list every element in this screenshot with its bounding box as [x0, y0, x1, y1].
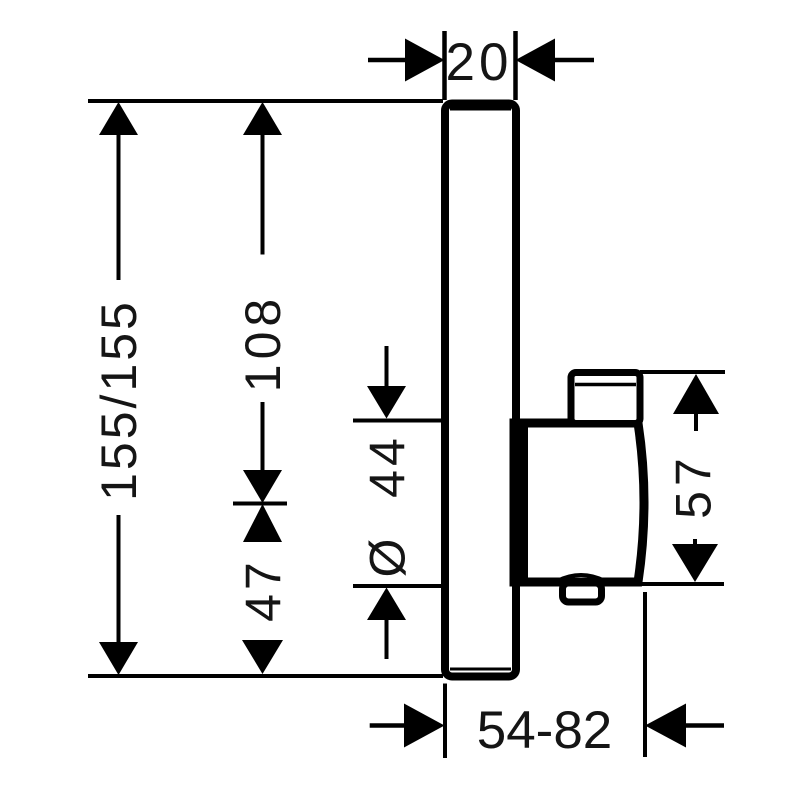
- valve body behind plate: [514, 419, 644, 586]
- dim Ø44 bottom extension line: [353, 584, 441, 588]
- svg-text:44: 44: [360, 434, 416, 498]
- bottom tab: [563, 583, 602, 602]
- dim Ø44 top extension line: [353, 419, 441, 423]
- svg-text:Ø: Ø: [360, 537, 416, 578]
- dim 20: left extension line: [442, 31, 447, 100]
- dim 54-82 right arrow: [645, 704, 724, 748]
- dim Ø44 bottom arrow: [367, 588, 406, 660]
- dim 54-82 right extension line: [643, 592, 647, 757]
- faceplate (side view, rounded rect): [445, 104, 516, 677]
- dim 20: left arrow: [368, 39, 445, 82]
- dim 57 bottom arrow: [672, 539, 718, 582]
- dim 20: right extension line: [513, 31, 518, 100]
- cartridge stem box on top of body: [571, 373, 640, 424]
- dim 47 line: [242, 504, 283, 674]
- bottom tab arc: [557, 575, 605, 581]
- svg-text:20: 20: [446, 33, 513, 92]
- dim 54-82 left arrow: [370, 704, 445, 748]
- svg-text:108: 108: [235, 294, 291, 392]
- svg-text:47: 47: [236, 558, 292, 622]
- bottom extension line (155/47): [88, 674, 443, 678]
- dim 57 top extension line: [640, 370, 725, 374]
- dim 57 bottom extension line: [640, 582, 724, 586]
- svg-text:57: 57: [666, 453, 722, 519]
- tick between 108 and 47: [233, 502, 287, 506]
- dim 54-82 left extension line: [443, 684, 447, 759]
- dim Ø44 top arrow: [367, 346, 406, 419]
- dim 155/155 line: [99, 102, 138, 675]
- svg-text:155/155: 155/155: [91, 299, 147, 501]
- dim 20: right arrow: [516, 39, 595, 82]
- dim 57 top arrow: [673, 374, 719, 431]
- svg-text:54-82: 54-82: [477, 701, 613, 760]
- top extension line (155/108): [88, 99, 443, 103]
- dim 108 line: [243, 102, 282, 503]
